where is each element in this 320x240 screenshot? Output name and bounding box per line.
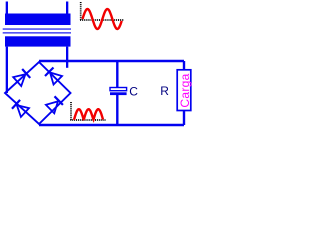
- svg-text:C: C: [129, 84, 138, 98]
- svg-text:Carga: Carga: [178, 73, 192, 107]
- svg-text:R: R: [160, 84, 169, 98]
